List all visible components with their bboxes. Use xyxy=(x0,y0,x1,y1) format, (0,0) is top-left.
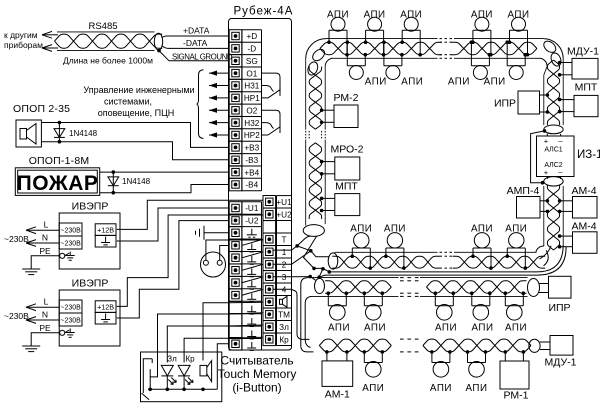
svg-text:-В3: -В3 xyxy=(245,156,258,165)
callpoint ИПР radial 2 xyxy=(539,276,571,314)
wire МПТ right taps xyxy=(558,98,574,114)
terminal НР2 xyxy=(229,129,260,142)
wire АЛС row4 to radial 3 xyxy=(273,289,310,339)
speaker in reader xyxy=(200,361,212,382)
svg-text:АПИ: АПИ xyxy=(365,77,387,88)
wire PE input to ground xyxy=(31,246,59,269)
enclosure tamper contact xyxy=(201,252,226,277)
wire internal pair diagonal xyxy=(242,252,263,258)
terminal right 4 xyxy=(263,283,287,296)
svg-text:SIGNAL GROUND: SIGNAL GROUND xyxy=(172,53,233,62)
wire ИВЭПР1 GND to -U1 xyxy=(117,208,229,241)
terminal left row GND xyxy=(229,338,256,351)
svg-text:АПИ: АПИ xyxy=(364,10,386,21)
contact i-Button xyxy=(142,359,153,400)
terminal right +U2 xyxy=(263,208,292,221)
terminal О2 xyxy=(229,104,257,117)
wire internal pair diagonal xyxy=(242,239,263,245)
svg-text:НР2: НР2 xyxy=(244,131,260,140)
svg-text:4: 4 xyxy=(282,286,287,295)
wire junction B to ring bottom wave xyxy=(311,251,330,257)
module МПТ left xyxy=(335,181,360,216)
svg-text:ИВЭПР: ИВЭПР xyxy=(72,201,109,213)
wire speaker output xyxy=(203,302,263,360)
callpoint ИПР right xyxy=(494,91,540,114)
detector АПИ ring top xyxy=(400,10,422,57)
svg-text:~230В: ~230В xyxy=(60,241,81,248)
terminal НР1 xyxy=(229,92,260,105)
module МДУ-1 bottom xyxy=(540,336,577,369)
terminal -В3 xyxy=(229,154,258,167)
wire АМ-4 first taps xyxy=(558,199,573,213)
break marks ring bottom xyxy=(440,252,453,268)
terminal left row GND xyxy=(229,251,256,264)
svg-text:АПИ: АПИ xyxy=(505,224,527,235)
svg-text:+: + xyxy=(544,136,549,145)
svg-text:Зл: Зл xyxy=(167,355,177,364)
wire МДУ-1 taps xyxy=(558,61,572,77)
wire SIGNAL GROUND to SG xyxy=(157,49,229,61)
terminal Н32 xyxy=(229,116,260,129)
wire ПОЖАР plus to +В4 xyxy=(100,171,229,173)
terminal right blank xyxy=(263,221,276,234)
wire ring left twisted pair xyxy=(306,59,326,226)
svg-text:к другим: к другим xyxy=(4,30,38,40)
svg-text:оповещение, ПЦН: оповещение, ПЦН xyxy=(98,108,175,118)
terminal right Т xyxy=(263,233,287,246)
detector АПИ radial3 xyxy=(362,350,384,394)
wire +DATA to +D xyxy=(162,36,229,38)
wire N input xyxy=(26,310,59,324)
wire Кр output xyxy=(184,337,263,362)
svg-text:Touch Memory: Touch Memory xyxy=(218,367,297,381)
detector АПИ radial3 xyxy=(430,350,452,394)
svg-text:~230В: ~230В xyxy=(4,234,29,244)
svg-text:АПИ: АПИ xyxy=(350,224,372,235)
terminal right 2 xyxy=(263,258,287,271)
detector АПИ radial2 xyxy=(434,291,458,333)
wire ИВЭПР2 +12В to +U2 xyxy=(117,215,263,306)
terminal left row GND xyxy=(229,289,256,302)
svg-text:РМ-2: РМ-2 xyxy=(334,92,359,104)
svg-text:1N4148: 1N4148 xyxy=(122,177,151,186)
wire ring left cable second conductor xyxy=(304,236,317,270)
svg-text:МПТ: МПТ xyxy=(335,181,358,193)
terminal right ТМ xyxy=(263,308,290,321)
functional earth symbol xyxy=(196,226,230,240)
panel lower-left label cells xyxy=(242,202,262,350)
detector АПИ ring bottom xyxy=(505,224,527,270)
svg-text:АПИ: АПИ xyxy=(435,323,457,334)
wire Зл output xyxy=(167,325,263,363)
corner ring bottom-right xyxy=(536,245,566,275)
wire junction A to ring left cable xyxy=(297,236,310,246)
svg-text:МРО-2: МРО-2 xyxy=(330,144,363,156)
terminal +D xyxy=(229,30,257,43)
terminal -D xyxy=(229,42,256,55)
terminal left row GND xyxy=(229,276,256,289)
svg-text:системами,: системами, xyxy=(104,97,152,107)
svg-text:Кр: Кр xyxy=(279,336,289,345)
corner ring top-right xyxy=(539,39,563,68)
module АМ-1 xyxy=(322,350,353,400)
svg-text:RS485: RS485 xyxy=(88,21,117,32)
wire ИПР taps xyxy=(540,93,550,114)
isolator ИЗ-1 xyxy=(537,134,575,179)
terminal right 3 xyxy=(263,271,287,284)
detector АПИ ring top xyxy=(364,10,386,57)
relay contact symbol xyxy=(262,110,281,135)
svg-text:+U2: +U2 xyxy=(276,211,292,220)
module МРО-2 xyxy=(330,144,363,181)
module МПТ right xyxy=(574,82,598,117)
cable end radial 3 right xyxy=(529,339,540,352)
svg-text:ИЗ-1: ИЗ-1 xyxy=(577,149,600,161)
svg-text:Рубеж-4А: Рубеж-4А xyxy=(234,6,294,18)
svg-text:(i-Button): (i-Button) xyxy=(232,381,281,395)
svg-text:АПИ: АПИ xyxy=(471,323,493,334)
svg-text:ТМ: ТМ xyxy=(278,311,290,320)
panel top-section label cells xyxy=(242,30,262,191)
relay contact symbol xyxy=(262,73,281,98)
terminal left row GND xyxy=(229,314,256,327)
wire ring return pair xyxy=(325,272,537,275)
svg-text:АПИ: АПИ xyxy=(400,10,422,21)
detector АПИ ring bottom xyxy=(350,224,372,270)
detector АПИ ring top lower xyxy=(484,40,527,87)
wire ПОЖАР minus to -В4 xyxy=(100,185,229,193)
break marks ring top xyxy=(440,39,453,59)
wire internal pair diagonal xyxy=(242,264,263,270)
wire МПТ left taps xyxy=(320,197,335,213)
svg-text:3: 3 xyxy=(282,273,287,282)
svg-text:+U1: +U1 xyxy=(276,198,292,207)
terminal right Зл xyxy=(263,321,289,334)
svg-text:АПИ: АПИ xyxy=(484,77,506,88)
power supply ИВЭПР 1 xyxy=(59,201,120,270)
diode VD1 1N4148 xyxy=(54,121,65,144)
corner ring top-left xyxy=(306,39,334,77)
wire N input xyxy=(26,233,59,247)
svg-text:+D: +D xyxy=(246,32,257,41)
wire ring top twisted pair xyxy=(320,39,544,59)
detector АПИ radial2 xyxy=(363,291,387,333)
wire reader ground xyxy=(217,344,229,390)
svg-text:-D: -D xyxy=(247,45,256,54)
LED Зл green xyxy=(161,365,176,389)
svg-text:ПОЖАР: ПОЖАР xyxy=(17,172,99,195)
svg-text:SG: SG xyxy=(246,57,258,66)
detector АПИ radial2 xyxy=(504,291,528,333)
label Считыватель Touch Memory (i-Button) xyxy=(218,354,297,395)
break marks radial 2 xyxy=(400,278,419,297)
diode VD2 1N4148 xyxy=(108,170,119,194)
cable end ring bottom left xyxy=(328,253,338,269)
svg-text:Длина не более 1000м: Длина не более 1000м xyxy=(63,56,153,66)
wire ОПОП2-35 minus to -В3 xyxy=(41,142,228,160)
terminal О1 xyxy=(229,67,257,80)
detector АПИ ring top lower xyxy=(382,40,423,87)
svg-text:АМП-4: АМП-4 xyxy=(507,185,540,197)
svg-text:~230В: ~230В xyxy=(60,228,81,235)
wire control output arrow xyxy=(209,95,229,100)
svg-text:АПИ: АПИ xyxy=(465,383,487,394)
svg-text:ИПР: ИПР xyxy=(548,302,570,314)
detector АПИ radial3 xyxy=(465,350,487,394)
wire L input xyxy=(26,220,59,234)
cable RS485 twisted pair xyxy=(55,32,163,51)
svg-text:+12В: +12В xyxy=(97,302,114,311)
svg-text:АПИ: АПИ xyxy=(401,77,423,88)
wire RS485 line B with arrow xyxy=(42,45,58,52)
wire radial line 3 twisted pair xyxy=(319,339,531,352)
detector АПИ ring top lower xyxy=(346,40,387,87)
svg-text:1N4148: 1N4148 xyxy=(69,129,98,138)
svg-text:Кр: Кр xyxy=(185,355,195,364)
wire radial2 rail wrap to radial 3 xyxy=(301,278,314,352)
panel Рубеж-4А outline xyxy=(229,19,292,351)
svg-text:+12В: +12В xyxy=(97,225,114,234)
text Управление инженерными системами оповещение ПЦН xyxy=(83,85,194,118)
wire radial line 2 twisted pair xyxy=(308,278,528,297)
detector АПИ radial2 xyxy=(470,291,494,333)
svg-text:АПИ: АПИ xyxy=(362,383,384,394)
wire control output arrow xyxy=(209,108,229,113)
detector АПИ ring top lower xyxy=(448,40,491,87)
detector АПИ ring top xyxy=(471,10,493,57)
module АМ-4 first xyxy=(571,185,597,218)
module РМ-1 xyxy=(500,350,529,401)
svg-text:МДУ-1: МДУ-1 xyxy=(545,357,577,369)
svg-text:~230В: ~230В xyxy=(4,311,29,321)
svg-text:PE: PE xyxy=(39,323,51,333)
wire RS485 line A with arrow xyxy=(42,31,58,38)
wire control output arrow xyxy=(209,83,229,88)
terminal +В4 xyxy=(229,166,259,179)
svg-text:АМ-1: АМ-1 xyxy=(325,389,350,401)
wire control output arrow xyxy=(209,132,229,137)
wire control output arrow xyxy=(209,71,229,76)
svg-text:ИПР: ИПР xyxy=(494,98,516,110)
wire АМ-4 second taps xyxy=(558,234,573,248)
wire АЛС row3 to junction E xyxy=(273,275,321,279)
terminal left row GND xyxy=(229,301,256,314)
wire ИВЭПР2 GND to -U2 xyxy=(117,221,229,318)
svg-text:АПИ: АПИ xyxy=(328,323,350,334)
wire PE input to ground xyxy=(31,323,59,346)
cable end below ИЗ-1 xyxy=(544,177,563,186)
wire control output arrow xyxy=(209,120,229,125)
svg-text:~230В: ~230В xyxy=(60,318,81,325)
svg-text:~230В: ~230В xyxy=(60,305,81,312)
wire radial2 lower rail wrap xyxy=(305,296,312,347)
svg-text:АЛС1: АЛС1 xyxy=(544,147,562,154)
wire ОПОП2-35 plus to +В3 xyxy=(41,123,228,148)
svg-text:АМ-4: АМ-4 xyxy=(571,185,596,197)
detector АПИ ring top xyxy=(327,10,349,57)
terminal left row GND xyxy=(229,326,256,339)
svg-text:-U1: -U1 xyxy=(245,204,259,213)
wire junction A to B xyxy=(297,246,313,253)
detector АПИ ring top xyxy=(507,10,529,57)
wire АМП-4 taps xyxy=(540,199,549,213)
svg-text:Считыватель: Считыватель xyxy=(220,354,293,368)
svg-text:РМ-1: РМ-1 xyxy=(504,390,529,402)
break marks radial 3 xyxy=(400,339,419,352)
terminal left row GND xyxy=(229,264,256,277)
wire junction G to F xyxy=(319,269,323,277)
wire tamper to Т xyxy=(206,240,263,260)
terminal -В4 xyxy=(229,178,258,191)
svg-text:PE: PE xyxy=(39,246,51,256)
svg-text:АПИ: АПИ xyxy=(507,10,529,21)
svg-text:О1: О1 xyxy=(246,69,257,78)
wire ИЗ-1 bypass xyxy=(531,129,547,184)
wire junction to ring bottom lower wave xyxy=(314,267,331,274)
annunciator ОПОП-1-8М ПОЖАР xyxy=(15,168,99,196)
svg-text:АПИ: АПИ xyxy=(364,323,386,334)
terminal left row -U1 xyxy=(229,202,259,215)
wire ТМ output xyxy=(150,313,263,390)
terminal Н31 xyxy=(229,79,260,92)
svg-text:-В4: -В4 xyxy=(245,181,258,190)
wire ring bottom twisted pair xyxy=(332,252,545,268)
wire ring right twisted pair lower xyxy=(544,185,563,250)
svg-text:ОПОП 2-35: ОПОП 2-35 xyxy=(13,103,70,115)
svg-text:АМ-4: АМ-4 xyxy=(571,221,596,233)
svg-text:+: + xyxy=(544,168,549,177)
svg-text:2: 2 xyxy=(282,261,287,270)
terminal right 1 xyxy=(263,246,287,259)
sounder ОПОП 2-35 xyxy=(16,120,41,147)
brace grouping control outputs xyxy=(197,70,204,138)
cable end radial 2 right xyxy=(528,279,540,297)
wire junction F to return pair xyxy=(319,275,325,277)
detector АПИ ring bottom xyxy=(471,224,493,270)
panel lower-right label cells xyxy=(277,196,292,346)
wire ring right twisted pair upper xyxy=(544,59,563,126)
terminal +В3 xyxy=(229,141,259,154)
svg-text:МПТ: МПТ xyxy=(575,82,598,94)
cable end ring left xyxy=(303,225,324,237)
svg-text:-U2: -U2 xyxy=(245,217,259,226)
power supply ИВЭПР 2 xyxy=(59,278,120,347)
svg-text:+В3: +В3 xyxy=(244,144,259,153)
svg-text:L: L xyxy=(44,220,49,230)
svg-text:ИВЭПР: ИВЭПР xyxy=(72,278,109,290)
wire РМ-2 taps xyxy=(320,108,334,124)
wire МРО-2 taps xyxy=(320,160,335,176)
svg-text:+В4: +В4 xyxy=(244,168,259,177)
svg-text:АПИ: АПИ xyxy=(430,383,452,394)
terminal right Кр xyxy=(263,333,289,346)
svg-text:+DATA: +DATA xyxy=(183,26,210,36)
svg-text:НР1: НР1 xyxy=(244,94,260,103)
svg-text:Н32: Н32 xyxy=(244,119,259,128)
terminal left row GND xyxy=(229,227,257,240)
wire ИВЭПР1 +12В to +U1 xyxy=(117,200,263,229)
svg-text:Управление инженерными: Управление инженерными xyxy=(83,85,194,95)
svg-text:АПИ: АПИ xyxy=(505,323,527,334)
ground symbol xyxy=(22,345,40,347)
module РМ-2 xyxy=(334,92,359,128)
svg-text:L: L xyxy=(44,297,49,307)
wire junction E to radial2 cable xyxy=(310,277,315,281)
wire internal pair diagonal xyxy=(242,289,263,295)
svg-text:приборам: приборам xyxy=(4,40,43,50)
svg-text:-DATA: -DATA xyxy=(183,38,208,48)
reader Считыватель Touch Memory xyxy=(141,352,222,402)
wire L input xyxy=(26,297,59,311)
svg-text:Зл: Зл xyxy=(279,323,289,332)
svg-text:МДУ-1: МДУ-1 xyxy=(567,46,599,58)
terminal SG xyxy=(229,55,258,68)
cable end radial 2 left xyxy=(315,278,325,293)
svg-text:Т: Т xyxy=(281,236,286,245)
wire tamper to GND xyxy=(220,246,230,261)
module АМП-4 xyxy=(507,185,540,218)
terminal left row -U2 xyxy=(229,214,259,227)
svg-text:ОПОП-1-8М: ОПОП-1-8М xyxy=(29,155,90,167)
svg-text:N: N xyxy=(42,233,48,243)
wire АЛС row2 to junction B xyxy=(273,263,292,265)
svg-text:АПИ: АПИ xyxy=(471,10,493,21)
svg-text:АПИ: АПИ xyxy=(327,10,349,21)
terminal left row GND xyxy=(229,239,256,252)
svg-text:N: N xyxy=(42,310,48,320)
svg-text:АПИ: АПИ xyxy=(448,77,470,88)
LED Кр red xyxy=(178,365,193,389)
wire internal pair diagonal xyxy=(242,277,263,283)
module АМ-4 second xyxy=(571,221,597,254)
svg-text:О2: О2 xyxy=(246,107,257,116)
cable end above ИЗ-1 xyxy=(544,125,563,134)
break marks ring left xyxy=(306,131,326,139)
detector АПИ ring bottom xyxy=(384,224,406,270)
svg-text:АПИ: АПИ xyxy=(384,224,406,235)
ground symbol xyxy=(22,268,40,270)
detector АПИ radial2 xyxy=(327,291,351,333)
wire АЛС row1 to junction A xyxy=(273,244,299,250)
terminal right +U1 xyxy=(263,196,292,209)
svg-text:1: 1 xyxy=(282,248,287,257)
svg-text:АПИ: АПИ xyxy=(471,224,493,235)
wire -DATA to -D xyxy=(162,46,229,49)
module МДУ-1 top xyxy=(567,46,599,80)
svg-text:Н31: Н31 xyxy=(244,82,259,91)
terminal right spk xyxy=(263,296,287,309)
